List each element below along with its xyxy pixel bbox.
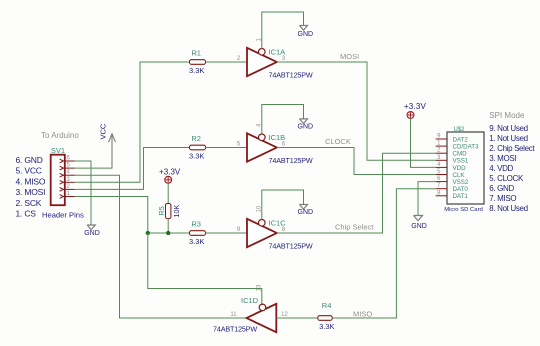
svg-text:Chip Select: Chip Select [335, 223, 374, 232]
buffer IC1A name label [269, 48, 286, 57]
op-amp buffer IC1C triangle [247, 219, 277, 247]
svg-text:74ABT125PW: 74ABT125PW [213, 324, 257, 333]
power symbol +3.3V at SD card [407, 112, 414, 119]
note list header pin functions [16, 155, 46, 219]
svg-text:CLK: CLK [453, 172, 466, 179]
svg-text:3.3K: 3.3K [189, 152, 204, 161]
note SPI Mode pin list [489, 124, 535, 213]
power label +3.3V at R5 [159, 168, 181, 177]
ground label GND at IC1C [298, 209, 314, 216]
resistor R1 body [190, 60, 206, 65]
svg-text:10K: 10K [172, 205, 181, 218]
buffer IC1C enable bubble [259, 220, 266, 227]
svg-text:IC1B: IC1B [269, 133, 286, 142]
buffer IC1D name label [241, 296, 259, 305]
wire +3.3V to R5 [167, 183, 169, 203]
ground label GND at SD card [411, 223, 427, 230]
svg-text:3.3K: 3.3K [189, 66, 204, 75]
wire SCK net from pin 2 to R2 [75, 148, 190, 190]
note To Arduino [41, 131, 79, 140]
ground label GND below header [84, 230, 100, 237]
svg-text:Micro SD Card: Micro SD Card [444, 207, 483, 213]
svg-text:11: 11 [230, 312, 237, 318]
buffer IC1B name label [269, 133, 286, 142]
ground symbol at IC1A [300, 26, 308, 31]
power label +3.3V at SD card [404, 102, 427, 111]
svg-text:+3.3V: +3.3V [404, 102, 427, 111]
svg-text:VCC: VCC [99, 123, 108, 139]
svg-text:CMD: CMD [453, 151, 468, 158]
buffer IC1A enable bubble [259, 49, 266, 56]
resistor R3 value 3.3K [189, 237, 204, 246]
svg-text:IC1A: IC1A [269, 48, 286, 57]
svg-text:R3: R3 [191, 219, 201, 228]
svg-text:DAT1: DAT1 [453, 193, 469, 200]
connector SV1 pin numbers 6-1 [67, 156, 71, 198]
svg-text:IC1C: IC1C [269, 219, 287, 228]
buffer IC1D enable bubble [259, 304, 266, 311]
buffer IC1C value 74ABT125PW [269, 241, 313, 250]
buffer IC1C enable pin 10 number [257, 205, 263, 212]
svg-text:CD/DAT3: CD/DAT3 [453, 144, 480, 151]
wire R5 to CS net [167, 219, 169, 233]
wire CS net to R3 [148, 232, 190, 234]
connector U$2 value label Micro SD Card [444, 207, 483, 213]
svg-text:5. VCC: 5. VCC [16, 166, 42, 176]
net label MISO [353, 310, 372, 319]
connector SV1 name label [51, 146, 65, 155]
svg-text:DAT0: DAT0 [453, 186, 469, 193]
resistor R1 name label [191, 48, 201, 57]
svg-text:74ABT125PW: 74ABT125PW [269, 70, 313, 79]
resistor R2 name label [191, 134, 201, 143]
buffer IC1A pin 2 number [237, 56, 241, 62]
ground label GND at IC1B [298, 123, 314, 130]
svg-text:Header Pins: Header Pins [42, 211, 84, 220]
svg-text:13: 13 [257, 284, 263, 291]
connector U$2 pin stubs [436, 139, 447, 196]
resistor R4 name label [322, 301, 332, 310]
buffer IC1B pin 5 number [237, 142, 241, 148]
svg-text:5. CLOCK: 5. CLOCK [489, 174, 524, 183]
svg-text:12: 12 [281, 312, 288, 318]
wire CS net from pin 1 down [75, 197, 148, 234]
power label VCC [99, 123, 108, 139]
svg-text:3. MOSI: 3. MOSI [16, 187, 46, 197]
buffer IC1C name label [269, 219, 287, 228]
wire MOSI net IC1A output to SD CMD [277, 62, 436, 160]
svg-text:MOSI: MOSI [340, 52, 359, 61]
wire MISO net from pin 4 to IC1D output [75, 175, 247, 318]
buffer IC1A value 74ABT125PW [269, 70, 313, 79]
wire IC1C enable to ground [262, 190, 304, 220]
ground symbol below header [87, 225, 95, 230]
svg-text:1. CS: 1. CS [16, 209, 37, 219]
power symbol VCC arrow [109, 134, 116, 168]
buffer IC1D pin 11 number [230, 312, 237, 318]
svg-text:VSS1: VSS1 [453, 158, 469, 165]
svg-text:R2: R2 [191, 134, 201, 143]
op-amp buffer IC1B triangle [247, 133, 277, 161]
svg-text:6. GND: 6. GND [16, 155, 43, 165]
note SPI Mode heading [489, 111, 525, 120]
resistor R5 value 10K [172, 205, 181, 218]
svg-text:CLOCK: CLOCK [325, 137, 351, 146]
svg-text:1. Not Used: 1. Not Used [489, 134, 527, 143]
wire MOSI net from pin 3 to R1 [75, 62, 190, 182]
buffer IC1C pin 9 number [237, 227, 241, 233]
wire CS net to IC1D enable [148, 233, 262, 304]
svg-text:R1: R1 [191, 48, 201, 57]
connector U$2 Micro SD Card body [447, 132, 484, 204]
buffer IC1A enable pin 1 number [257, 38, 263, 42]
wire VCC net from pin 5 [75, 143, 113, 168]
connector SV1 value label Header Pins [42, 211, 84, 220]
svg-text:GND: GND [84, 230, 100, 237]
connector U$2 pin names [453, 136, 480, 200]
buffer IC1B enable pin 4 number [257, 123, 263, 127]
svg-text:GND: GND [411, 223, 427, 230]
wire GND net from pin 6 [75, 161, 92, 225]
svg-text:7. MISO: 7. MISO [489, 194, 516, 203]
buffer IC1A pin 3 number [282, 56, 286, 62]
svg-text:GND: GND [298, 123, 314, 130]
svg-text:8. Not Used: 8. Not Used [489, 204, 527, 213]
wire IC1B enable to ground [262, 105, 304, 135]
power symbol +3.3V at R5 [165, 176, 172, 183]
wire Chip Select net IC1C output to SD CD/DAT3 [277, 153, 436, 233]
svg-text:2. Chip Select: 2. Chip Select [489, 144, 535, 153]
wire SD VSS2 to ground [418, 182, 436, 216]
ground symbol at IC1C [300, 205, 308, 210]
svg-text:VSS2: VSS2 [453, 179, 469, 186]
resistor R4 value 3.3K [319, 322, 334, 331]
connector SV1 pin stubs [63, 161, 74, 197]
wire IC1A enable to ground [262, 12, 304, 49]
svg-text:R4: R4 [322, 301, 332, 310]
wire IC1D input from R4 [276, 317, 318, 319]
resistor R4 body [318, 316, 332, 321]
wire CLOCK net IC1B output to SD CLK [277, 148, 436, 175]
buffer IC1B pin 6 number [282, 142, 286, 148]
buffer IC1D enable pin 13 number [257, 284, 263, 291]
connector SV1 pin chevrons [60, 159, 64, 198]
svg-text:GND: GND [298, 31, 314, 38]
resistor R2 body [190, 145, 206, 150]
wire input to IC1B [206, 147, 248, 149]
buffer IC1B enable bubble [259, 134, 266, 141]
svg-text:9. Not Used: 9. Not Used [489, 124, 527, 133]
svg-text:2. SCK: 2. SCK [16, 198, 42, 208]
buffer IC1B value 74ABT125PW [269, 156, 313, 165]
svg-text:4. MISO: 4. MISO [16, 176, 46, 186]
connector U$2 name label [454, 127, 466, 133]
net label MOSI [340, 52, 359, 61]
svg-text:3.3K: 3.3K [319, 322, 334, 331]
svg-text:MISO: MISO [353, 310, 372, 319]
svg-text:6. GND: 6. GND [489, 184, 514, 193]
svg-text:3. MOSI: 3. MOSI [489, 154, 516, 163]
net label CLOCK [325, 137, 351, 146]
connector U$2 pin numbers [437, 134, 441, 197]
junction R5 bottom node [166, 231, 170, 235]
resistor R5 body [166, 204, 171, 219]
wire input to IC1A [206, 61, 248, 63]
buffer IC1D pin 12 number [281, 312, 288, 318]
wire MISO net R4 to SD DAT0 [332, 189, 435, 318]
op-amp buffer IC1D triangle [247, 304, 277, 332]
ground symbol at IC1B [300, 119, 308, 124]
buffer IC1C pin 8 number [282, 227, 286, 233]
svg-text:VDD: VDD [453, 165, 467, 172]
resistor R5 name label [157, 206, 166, 215]
connector SV1 body [51, 155, 65, 206]
wire +3.3V to SD VDD [411, 119, 436, 168]
ground label GND at IC1A [298, 31, 314, 38]
resistor R1 value 3.3K [189, 66, 204, 75]
svg-text:IC1D: IC1D [241, 296, 259, 305]
resistor R2 value 3.3K [189, 152, 204, 161]
svg-text:+3.3V: +3.3V [159, 168, 181, 177]
wire input to IC1C [206, 232, 248, 234]
svg-text:DAT2: DAT2 [453, 136, 469, 143]
svg-text:74ABT125PW: 74ABT125PW [269, 241, 313, 250]
svg-text:3.3K: 3.3K [189, 237, 204, 246]
buffer IC1D value 74ABT125PW [213, 324, 257, 333]
net label Chip Select [335, 223, 374, 232]
ground symbol at SD card [414, 216, 423, 221]
svg-text:74ABT125PW: 74ABT125PW [269, 156, 313, 165]
resistor R3 body [190, 231, 206, 236]
svg-text:R5: R5 [157, 206, 166, 215]
svg-text:SPI Mode: SPI Mode [489, 111, 525, 120]
resistor R3 name label [191, 219, 201, 228]
op-amp buffer IC1A triangle [247, 48, 277, 76]
svg-text:GND: GND [298, 209, 314, 216]
junction CS node at R5 [146, 231, 150, 235]
svg-text:4. VDD: 4. VDD [489, 164, 513, 173]
svg-text:To Arduino: To Arduino [41, 131, 79, 140]
